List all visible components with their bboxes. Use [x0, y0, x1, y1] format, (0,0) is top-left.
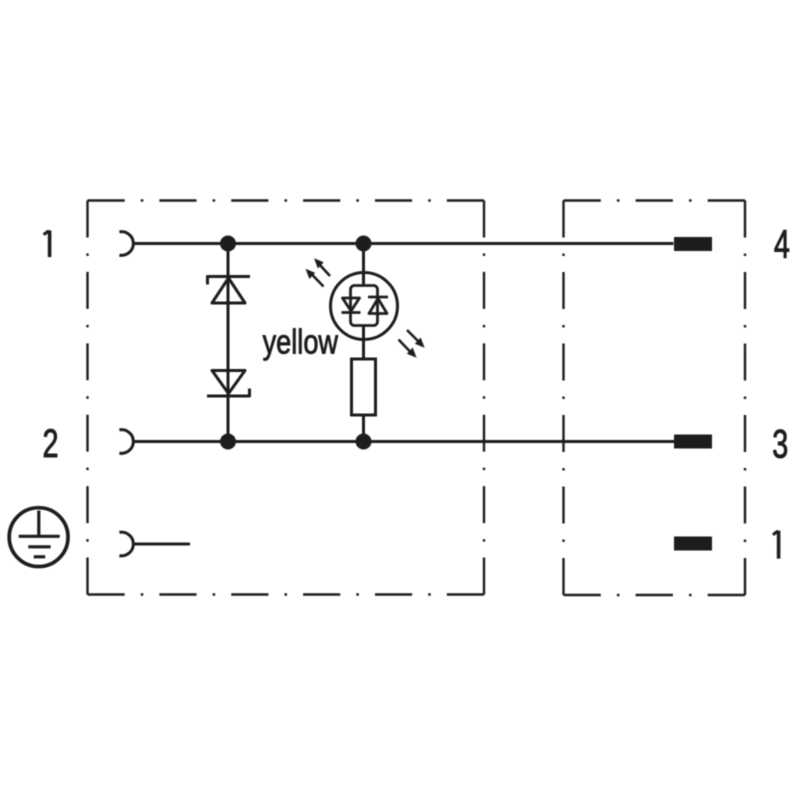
svg-text:2: 2 [42, 422, 58, 467]
svg-text:3: 3 [772, 422, 788, 467]
svg-text:4: 4 [774, 222, 790, 267]
svg-text:yellow: yellow [263, 322, 339, 361]
